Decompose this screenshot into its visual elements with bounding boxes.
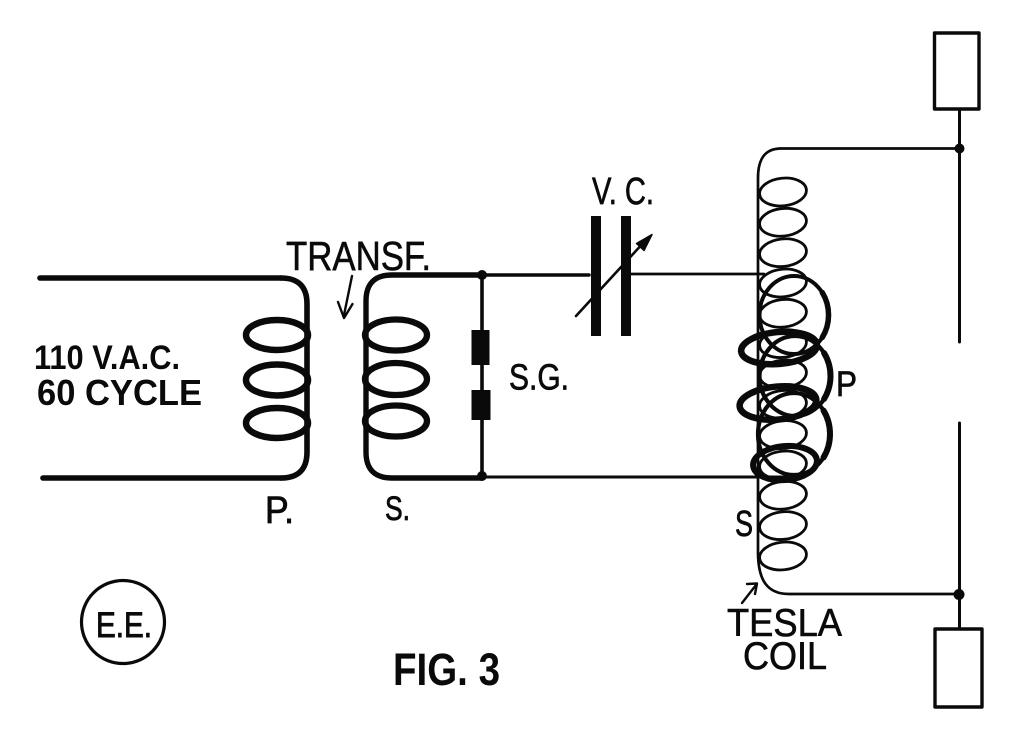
tesla coil primary P winding — [760, 276, 829, 354]
discharge terminal bottom electrode — [935, 629, 982, 707]
svg-text:P: P — [836, 365, 857, 404]
wire bottom electrode lead — [958, 423, 961, 629]
svg-text:TRANSF.: TRANSF. — [286, 233, 431, 279]
svg-text:S: S — [735, 503, 753, 544]
node junction top of spark gap — [477, 270, 487, 280]
svg-text:S.: S. — [385, 490, 410, 528]
spark gap S.G. bottom electrode — [472, 390, 491, 420]
svg-text:E.E.: E.E. — [96, 606, 152, 645]
wire spark gap vertical — [480, 275, 484, 476]
wire secondary top to capacitor — [482, 273, 589, 276]
wire lower bus spark gap to tesla primary — [482, 476, 796, 479]
wire top-left AC lead — [40, 275, 281, 281]
arrow TRANSF pointer — [344, 276, 352, 315]
svg-text:COIL: COIL — [743, 635, 827, 678]
spark gap S.G. top electrode — [472, 330, 490, 365]
svg-text:S.G.: S.G. — [509, 357, 569, 398]
svg-text:V. C.: V. C. — [592, 171, 654, 213]
wire capacitor to tesla primary — [631, 273, 764, 276]
wire top electrode lead — [958, 109, 961, 342]
arrow TESLA COIL pointer — [742, 585, 756, 603]
wire bottom-left AC lead — [43, 475, 281, 481]
transformer secondary coil S — [366, 275, 482, 478]
svg-text:60 CYCLE: 60 CYCLE — [37, 372, 202, 413]
svg-text:P.: P. — [265, 490, 294, 532]
capacitor V.C. right plate — [621, 216, 631, 336]
node junction bottom of spark gap — [477, 471, 487, 481]
transformer primary coil P — [281, 278, 307, 478]
capacitor variable arrow — [576, 241, 645, 316]
svg-text:FIG. 3: FIG. 3 — [393, 644, 500, 695]
node junction bottom right — [954, 589, 965, 600]
node junction top right — [955, 144, 965, 154]
discharge terminal top electrode — [935, 33, 980, 109]
tesla coil secondary S winding — [758, 149, 959, 595]
E.E. stamp circle — [82, 581, 165, 664]
capacitor V.C. left plate — [591, 216, 601, 336]
